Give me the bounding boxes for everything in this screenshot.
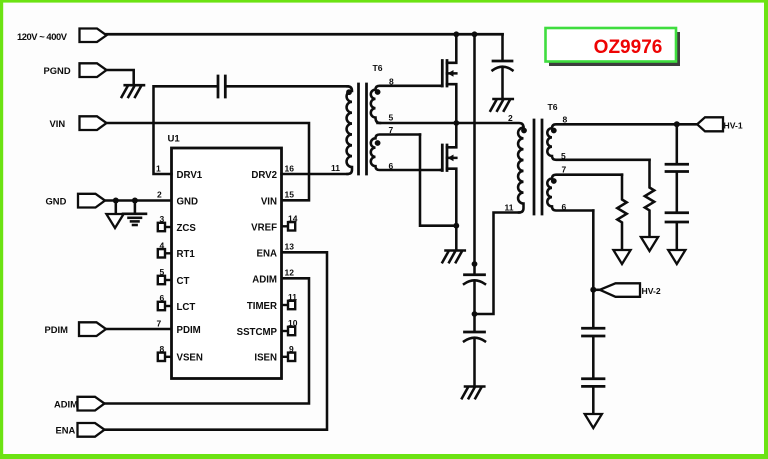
arrow ground R1 — [613, 250, 630, 264]
svg-text:6: 6 — [389, 161, 394, 171]
svg-text:8: 8 — [160, 344, 165, 354]
transistor Q1 — [441, 34, 456, 123]
signal ground triangle — [106, 214, 123, 228]
T6 out primary phase dot — [521, 128, 527, 134]
svg-text:T6: T6 — [548, 102, 558, 112]
svg-text:T6: T6 — [373, 63, 383, 73]
wire — [134, 201, 137, 213]
connector HV-2 — [600, 283, 640, 297]
wire — [115, 201, 118, 214]
earth ground — [123, 214, 146, 225]
svg-text:14: 14 — [288, 213, 298, 223]
svg-text:8: 8 — [389, 77, 394, 87]
IC right pin names — [237, 170, 278, 364]
pin 10 stub — [282, 327, 296, 335]
svg-text:11: 11 — [288, 292, 297, 302]
arrow ground C8 — [585, 414, 602, 428]
chassis ground Q2 source — [442, 251, 464, 263]
svg-text:OZ9976: OZ9976 — [594, 37, 663, 58]
wire ADIM to pin12 — [105, 278, 310, 403]
wire PDIM to pin7 — [106, 328, 172, 331]
chassis ground C4 — [462, 387, 484, 399]
pin 14 stub — [282, 222, 296, 230]
T6 core — [359, 84, 367, 174]
svg-text:CT: CT — [177, 276, 190, 287]
svg-text:ENA: ENA — [56, 425, 76, 436]
svg-text:TIMER: TIMER — [247, 301, 277, 312]
wire to HV-2 tip — [593, 289, 600, 292]
T6 out primary winding — [518, 128, 523, 213]
connector VIN — [80, 116, 107, 130]
junction — [453, 120, 459, 126]
T6 out secondary winding 2 — [547, 175, 622, 211]
svg-text:7: 7 — [562, 165, 567, 175]
junction — [472, 31, 478, 37]
capacitor C7 — [583, 328, 605, 377]
svg-text:5: 5 — [389, 113, 394, 123]
T6 out secondary 1 phase dot — [551, 128, 557, 134]
svg-text:6: 6 — [562, 202, 567, 212]
svg-text:PGND: PGND — [44, 65, 71, 76]
T6 secondary winding 2 — [371, 135, 441, 171]
svg-text:8: 8 — [563, 115, 568, 125]
T6 out secondary winding 1 — [547, 124, 677, 160]
svg-text:3: 3 — [160, 214, 165, 224]
junction HV-2 — [590, 287, 596, 293]
connector HV-1 — [697, 117, 723, 131]
connector PDIM — [79, 322, 106, 336]
svg-text:VSEN: VSEN — [177, 353, 203, 364]
svg-text:VIN: VIN — [261, 196, 277, 207]
wire DRV1 pin1 to cap — [154, 86, 217, 174]
wire T6 pin6 to HV-2 — [592, 211, 595, 328]
T6 primary winding — [347, 86, 352, 174]
chassis ground PGND — [122, 85, 144, 97]
capacitor C4 — [464, 314, 485, 386]
pin 8 stub — [158, 353, 172, 361]
junction — [132, 198, 138, 204]
svg-text:12: 12 — [285, 268, 295, 278]
T6 out secondary 2 phase dot — [551, 178, 557, 184]
svg-text:9: 9 — [289, 344, 294, 354]
wire ENA to pin13 — [105, 252, 328, 429]
svg-text:15: 15 — [285, 190, 295, 200]
svg-text:GND: GND — [46, 196, 67, 207]
connector GND — [78, 194, 105, 208]
svg-text:5: 5 — [160, 267, 165, 277]
svg-text:DRV1: DRV1 — [177, 170, 203, 181]
T6 primary phase dot — [346, 89, 352, 95]
svg-text:RT1: RT1 — [177, 249, 196, 260]
svg-text:1: 1 — [156, 164, 161, 174]
T6 secondary 1 phase dot — [375, 89, 381, 95]
svg-text:7: 7 — [389, 125, 394, 135]
svg-text:6: 6 — [160, 293, 165, 303]
wire top rail — [107, 33, 503, 36]
connector ENA — [78, 423, 105, 437]
svg-text:ISEN: ISEN — [254, 353, 277, 364]
wire DRV2 pin16 to T6 pin11 — [282, 173, 348, 176]
wire pin7 L to Q2 source — [420, 135, 456, 226]
svg-text:ZCS: ZCS — [177, 223, 197, 234]
connector ADIM — [78, 397, 105, 411]
op-amp U1 IC box — [172, 148, 282, 379]
capacitor C6 — [666, 213, 688, 250]
pin 11 stub — [282, 301, 296, 309]
svg-text:2: 2 — [157, 190, 162, 200]
arrow ground C6 — [668, 250, 685, 264]
svg-text:VREF: VREF — [251, 223, 277, 234]
resistor R2 — [645, 160, 654, 237]
svg-text:4: 4 — [160, 240, 165, 250]
arrow ground R2 — [641, 237, 658, 251]
wire GND to pin2 — [105, 199, 172, 202]
svg-text:LCT: LCT — [177, 302, 196, 313]
capacitor C1 — [218, 76, 225, 97]
svg-text:ADIM: ADIM — [252, 274, 277, 285]
svg-text:7: 7 — [157, 319, 162, 329]
junction HV-1 — [674, 121, 680, 127]
transistor Q2 — [441, 123, 456, 250]
wire HV-1 to caps — [677, 124, 698, 163]
svg-text:U1: U1 — [168, 134, 181, 145]
svg-text:2: 2 — [508, 113, 513, 123]
wire cap to T6 primary — [227, 85, 348, 88]
svg-text:VIN: VIN — [50, 118, 66, 129]
T6 secondary winding 1 — [371, 86, 441, 123]
junction — [472, 261, 478, 267]
svg-text:GND: GND — [177, 196, 199, 207]
connector PGND — [80, 63, 107, 77]
pin 3 stub — [158, 223, 172, 231]
svg-text:ENA: ENA — [257, 248, 277, 259]
svg-text:HV-1: HV-1 — [724, 120, 743, 130]
svg-text:HV-2: HV-2 — [642, 286, 661, 296]
pin 5 stub — [158, 276, 172, 284]
chassis ground C2 — [490, 99, 512, 111]
resistor R1 — [617, 175, 626, 250]
capacitor C2 top right — [493, 34, 513, 98]
svg-text:13: 13 — [285, 242, 295, 252]
title box OZ9976 — [546, 28, 681, 66]
capacitor C8 — [583, 379, 605, 414]
svg-text:120V ~ 400V: 120V ~ 400V — [17, 31, 68, 42]
junction — [113, 198, 119, 204]
wire PGND to chassis — [107, 70, 134, 85]
svg-text:SSTCMP: SSTCMP — [237, 327, 278, 338]
wire to T6 pin 11 — [475, 213, 520, 315]
capacitor C5 — [666, 164, 688, 211]
svg-text:ADIM: ADIM — [54, 399, 78, 410]
svg-text:16: 16 — [285, 164, 295, 174]
svg-text:5: 5 — [561, 151, 566, 161]
pin 6 stub — [158, 302, 172, 310]
svg-text:DRV2: DRV2 — [251, 170, 277, 181]
wire long vertical from top rail — [473, 34, 476, 264]
junction — [453, 223, 459, 229]
T6 secondary 2 phase dot — [375, 140, 381, 146]
capacitor C3 — [464, 264, 485, 314]
junction — [453, 31, 459, 37]
svg-text:11: 11 — [505, 203, 514, 213]
connector P1 120V~400V — [80, 29, 107, 43]
IC left pin names — [177, 170, 203, 364]
pin 9 stub — [282, 353, 296, 361]
svg-text:PDIM: PDIM — [45, 324, 69, 335]
svg-text:PDIM: PDIM — [177, 325, 201, 336]
svg-text:11: 11 — [331, 163, 340, 173]
wire VIN to pin15 — [107, 123, 310, 200]
wire mid rail (net 5) — [378, 123, 524, 128]
svg-text:10: 10 — [288, 318, 298, 328]
pin 4 stub — [158, 249, 172, 257]
junction — [472, 311, 478, 317]
T6 out core — [534, 120, 542, 214]
